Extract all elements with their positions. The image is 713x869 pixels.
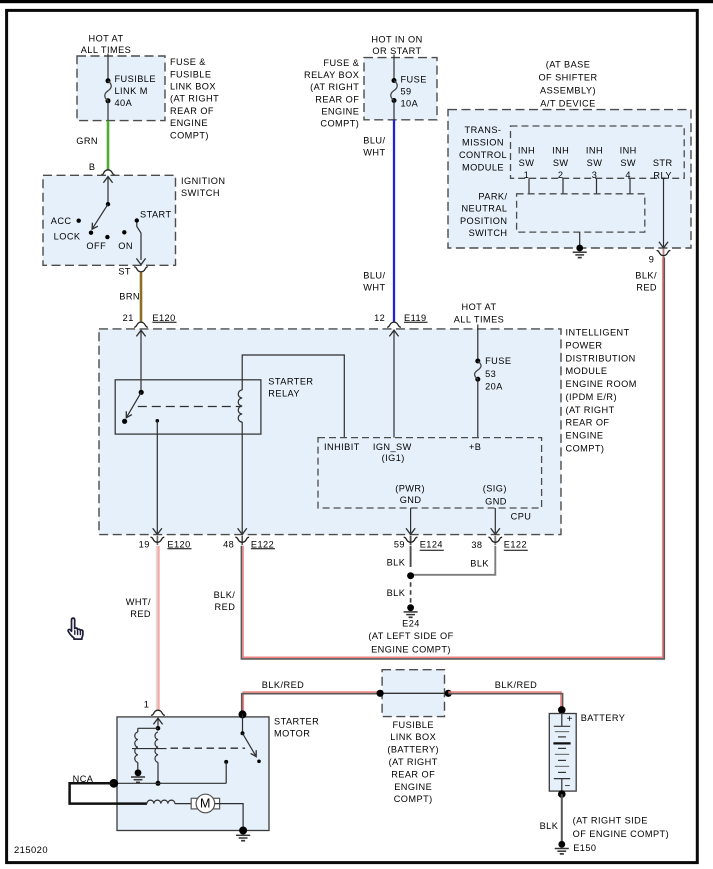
svg-text:NEUTRAL: NEUTRAL bbox=[461, 204, 507, 214]
wire pin 12 to IGN_SW bbox=[389, 330, 398, 437]
svg-text:SW: SW bbox=[620, 158, 636, 168]
junction battery negative bbox=[558, 790, 566, 798]
label BLU/WHT (upper) bbox=[363, 136, 385, 158]
svg-text:REAR OF: REAR OF bbox=[170, 106, 214, 116]
relay mechanical link (dashed) bbox=[138, 406, 242, 408]
svg-text:MODULE: MODULE bbox=[566, 366, 608, 376]
svg-text:(AT RIGHT: (AT RIGHT bbox=[310, 82, 359, 92]
label STARTER RELAY bbox=[268, 376, 313, 398]
svg-text:REAR OF: REAR OF bbox=[391, 769, 435, 779]
label BATTERY bbox=[581, 713, 626, 723]
svg-text:BLU/: BLU/ bbox=[363, 271, 385, 281]
wire PNP switch to ground bbox=[579, 232, 581, 248]
node ON bbox=[118, 230, 133, 251]
label PARK/ NEUTRAL POSITION SWITCH bbox=[460, 192, 508, 239]
svg-text:10A: 10A bbox=[401, 99, 419, 109]
wire pin 21 to relay contact bbox=[136, 330, 145, 392]
node HOT IN ON OR START bbox=[371, 35, 422, 56]
transmission control module box (dashed) bbox=[511, 126, 685, 178]
svg-text:−: − bbox=[564, 781, 570, 792]
label STARTER MOTOR bbox=[274, 717, 319, 739]
wire hold-in coil to ground bbox=[137, 762, 139, 769]
svg-text:INH: INH bbox=[586, 145, 603, 155]
label CPU bbox=[511, 512, 532, 522]
svg-text:BLK: BLK bbox=[387, 557, 406, 567]
svg-text:POSITION: POSITION bbox=[460, 216, 508, 226]
svg-text:(AT BASE: (AT BASE bbox=[546, 60, 591, 70]
wire BLU/WHT bbox=[393, 120, 395, 322]
svg-text:GND: GND bbox=[485, 496, 507, 506]
connector arc pin 1 bbox=[151, 710, 165, 715]
pin IGN_SW (IG1) bbox=[373, 442, 412, 463]
wire GRN bbox=[107, 121, 110, 171]
label BLK (pin 59) bbox=[387, 557, 406, 567]
starter switch contact bbox=[241, 714, 261, 763]
svg-text:STARTER: STARTER bbox=[268, 376, 313, 386]
wire STR RLY to pin 9 bbox=[659, 178, 668, 248]
pin 9 bbox=[649, 255, 655, 265]
node NCA bbox=[73, 774, 94, 784]
svg-text:INTELLIGENT: INTELLIGENT bbox=[566, 328, 630, 338]
connector arc pin 59 bbox=[404, 536, 418, 545]
svg-text:FUSE: FUSE bbox=[485, 356, 511, 366]
wire BLK/RED starter motor to fusible link box bbox=[242, 692, 380, 711]
wire fuse 53 to +B bbox=[477, 379, 479, 437]
svg-text:48: 48 bbox=[223, 539, 234, 549]
label GRN bbox=[76, 136, 98, 146]
svg-text:FUSIBLE: FUSIBLE bbox=[170, 69, 211, 79]
svg-text:53: 53 bbox=[485, 369, 496, 379]
connector at B (ignition switch) bbox=[101, 170, 115, 175]
wire BLK from pin 38 bbox=[413, 546, 495, 575]
connector arc pin 9 bbox=[657, 249, 671, 258]
wire WHT/RED bbox=[156, 546, 158, 711]
fusible link box (battery) dashed bbox=[382, 670, 444, 717]
svg-text:DISTRIBUTION: DISTRIBUTION bbox=[566, 353, 636, 363]
svg-text:GND: GND bbox=[400, 495, 422, 505]
connector arc pin 38 bbox=[488, 536, 502, 545]
svg-text:PARK/: PARK/ bbox=[478, 192, 507, 202]
svg-text:ENGINE: ENGINE bbox=[321, 106, 359, 116]
node ACC bbox=[51, 216, 81, 226]
svg-text:GRN: GRN bbox=[76, 136, 98, 146]
wire BLK from pin 59 bbox=[410, 546, 412, 567]
svg-text:FUSE &: FUSE & bbox=[323, 58, 359, 68]
label BLK/RED (pin 9) bbox=[635, 271, 657, 293]
svg-text:(BATTERY): (BATTERY) bbox=[387, 745, 439, 755]
wire START contact to ST terminal bbox=[136, 223, 145, 265]
svg-text:E120: E120 bbox=[167, 539, 190, 549]
svg-text:RED: RED bbox=[130, 609, 151, 619]
pin (PWR) GND bbox=[395, 483, 425, 505]
pin INHIBIT bbox=[324, 442, 360, 452]
label FUSIBLE LINK BOX (BATTERY) (AT RIGHT REAR OF ENGINE COMPT) bbox=[387, 720, 439, 804]
svg-text:59: 59 bbox=[394, 540, 405, 550]
svg-text:E122: E122 bbox=[251, 539, 274, 549]
label BLK/RED (right) bbox=[495, 680, 537, 690]
svg-text:(AT LEFT SIDE OF: (AT LEFT SIDE OF bbox=[368, 631, 453, 641]
svg-text:E122: E122 bbox=[504, 540, 527, 550]
pin +B bbox=[469, 442, 481, 452]
label BLK (battery) bbox=[540, 821, 559, 831]
wire from HOT AT ALL TIMES into fusible link box bbox=[107, 54, 109, 82]
svg-text:B: B bbox=[89, 162, 96, 172]
wire INH SW 3 to PNP switch bbox=[596, 178, 598, 194]
label BLK (to E24) bbox=[387, 588, 406, 598]
connector E122 (pin 38) bbox=[504, 540, 528, 551]
pin 21 bbox=[123, 313, 134, 323]
node ST bbox=[118, 267, 131, 277]
svg-text:(AT RIGHT SIDE: (AT RIGHT SIDE bbox=[573, 816, 648, 826]
A/T device box (dashed) bbox=[448, 110, 691, 248]
svg-text:(AT RIGHT: (AT RIGHT bbox=[566, 405, 615, 415]
svg-text:E150: E150 bbox=[573, 843, 596, 853]
starter switch fixed contact to NCA wire bbox=[224, 760, 228, 783]
svg-text:(PWR): (PWR) bbox=[395, 483, 425, 493]
node START bbox=[135, 209, 172, 222]
svg-text:M: M bbox=[200, 797, 211, 811]
wire BRN bbox=[140, 272, 143, 321]
pin INH SW 2 bbox=[552, 145, 569, 180]
svg-text:12: 12 bbox=[374, 313, 385, 323]
wire INH SW 1 to PNP switch bbox=[528, 178, 530, 194]
svg-text:SWITCH: SWITCH bbox=[181, 188, 220, 198]
svg-text:BLK/: BLK/ bbox=[214, 590, 236, 600]
svg-text:E120: E120 bbox=[152, 313, 175, 323]
fuse & relay box (dashed) bbox=[364, 58, 437, 120]
ignition switch box (dashed) bbox=[43, 175, 176, 265]
svg-text:ACC: ACC bbox=[51, 216, 72, 226]
node OFF bbox=[86, 235, 109, 251]
svg-text:ST: ST bbox=[118, 267, 131, 277]
svg-text:IGN_SW: IGN_SW bbox=[373, 442, 412, 452]
connector arc pin 48 bbox=[235, 536, 249, 545]
wire BLK/RED fusible link box to battery bbox=[448, 692, 562, 708]
svg-text:MISSION: MISSION bbox=[462, 138, 504, 148]
svg-text:HOT IN ON: HOT IN ON bbox=[371, 35, 422, 45]
label WHT/RED bbox=[126, 597, 151, 619]
svg-text:59: 59 bbox=[401, 87, 412, 97]
svg-text:BLK: BLK bbox=[470, 559, 489, 569]
label (AT LEFT SIDE OF ENGINE COMPT) bbox=[368, 631, 453, 654]
svg-text:LINK BOX: LINK BOX bbox=[170, 82, 216, 92]
starter field coil bbox=[147, 800, 175, 803]
svg-text:WHT: WHT bbox=[363, 283, 385, 293]
label FUSE 59 10A bbox=[401, 75, 427, 109]
svg-text:1: 1 bbox=[144, 700, 150, 710]
node B bbox=[89, 162, 96, 172]
connector E122 (pin 48) bbox=[251, 539, 275, 549]
junction fusible link box left bbox=[377, 690, 384, 697]
ignition switch rotor arm bbox=[92, 202, 110, 229]
svg-text:21: 21 bbox=[123, 313, 134, 323]
svg-text:BLU/: BLU/ bbox=[363, 136, 385, 146]
motor M armature bbox=[191, 794, 219, 813]
label FUSIBLE LINK M 40A bbox=[115, 74, 156, 108]
svg-text:POWER: POWER bbox=[566, 340, 603, 350]
svg-text:COMPT): COMPT) bbox=[170, 130, 209, 140]
pin (SIG) GND bbox=[483, 483, 507, 506]
pin STR RLY bbox=[653, 158, 673, 180]
wire pin 1 into starter motor bbox=[153, 718, 162, 728]
svg-text:(SIG): (SIG) bbox=[483, 483, 507, 493]
pin 19 bbox=[139, 539, 150, 549]
fuse 59 10A bbox=[391, 78, 397, 120]
wire BLK to ground E24 (dashed) bbox=[410, 582, 412, 603]
label BLK/RED (pin 48) bbox=[214, 590, 236, 612]
svg-text:SW: SW bbox=[553, 158, 569, 168]
connector E120 (pin 21) bbox=[152, 313, 176, 323]
svg-text:COMPT): COMPT) bbox=[394, 794, 433, 804]
svg-text:ENGINE: ENGINE bbox=[394, 782, 432, 792]
relay coil bbox=[238, 390, 242, 422]
solenoid hold-in coil bbox=[135, 732, 138, 762]
connector E124 (pin 59) bbox=[420, 540, 444, 551]
wire field coil to motor bbox=[175, 803, 192, 805]
label BLU/WHT (lower) bbox=[363, 271, 385, 293]
svg-text:FUSIBLE: FUSIBLE bbox=[392, 720, 433, 730]
node HOT AT ALL TIMES (IPDM) bbox=[454, 302, 505, 325]
svg-text:RELAY: RELAY bbox=[268, 388, 300, 398]
label E24 bbox=[402, 619, 420, 629]
hand cursor bbox=[68, 618, 83, 639]
label TRANS- MISSION CONTROL MODULE bbox=[459, 125, 507, 172]
fuse 53 20A bbox=[475, 359, 481, 382]
svg-text:BLK: BLK bbox=[540, 821, 559, 831]
wire BLK/RED from pin 48 to STR RLY pin 9 bbox=[241, 258, 664, 659]
connector at ST bbox=[134, 267, 148, 272]
svg-text:COMPT): COMPT) bbox=[320, 119, 359, 129]
svg-text:LINK M: LINK M bbox=[115, 86, 148, 96]
svg-text:ALL TIMES: ALL TIMES bbox=[454, 314, 505, 324]
svg-text:TRANS-: TRANS- bbox=[465, 125, 502, 135]
svg-text:FUSIBLE: FUSIBLE bbox=[115, 74, 156, 84]
svg-text:MODULE: MODULE bbox=[462, 162, 504, 172]
junction solenoid coils bbox=[138, 726, 161, 732]
svg-text:ENGINE COMPT): ENGINE COMPT) bbox=[371, 645, 451, 655]
label FUSE & FUSIBLE LINK BOX (AT RIGHT REAR OF ENGINE COMPT) bbox=[170, 57, 219, 140]
svg-text:BLK/RED: BLK/RED bbox=[262, 680, 304, 690]
svg-text:LOCK: LOCK bbox=[54, 231, 81, 241]
svg-text:40A: 40A bbox=[115, 98, 133, 108]
junction motor ground bbox=[239, 827, 247, 835]
svg-text:FUSE &: FUSE & bbox=[170, 57, 206, 67]
svg-text:A/T DEVICE: A/T DEVICE bbox=[540, 98, 595, 108]
svg-text:COMPT): COMPT) bbox=[566, 444, 605, 454]
connector arc pin 12 bbox=[387, 322, 401, 327]
ground at A/T device bbox=[573, 245, 587, 258]
wire through fusible link box bbox=[380, 692, 448, 694]
svg-text:BLK/: BLK/ bbox=[635, 271, 657, 281]
svg-text:RLY: RLY bbox=[653, 170, 672, 180]
pin 38 bbox=[471, 540, 482, 550]
starter relay box bbox=[115, 380, 261, 434]
wire INH SW 4 to PNP switch bbox=[629, 178, 631, 194]
svg-text:IGNITION: IGNITION bbox=[181, 176, 225, 186]
svg-text:38: 38 bbox=[471, 540, 482, 550]
fusible link M 40A bbox=[105, 78, 111, 120]
wire (SIG) GND to pin 38 bbox=[491, 508, 500, 534]
label INTELLIGENT POWER DISTRIBUTION MODULE ENGINE ROOM (IPDM E/R) (AT RIGHT REAR OF ENGINE COMPT) bbox=[566, 328, 637, 454]
wire relay coil to INHIBIT bbox=[242, 355, 344, 438]
solenoid plunger link bbox=[132, 748, 167, 750]
junction battery positive bbox=[558, 706, 566, 714]
svg-text:INH: INH bbox=[518, 145, 535, 155]
svg-text:(AT RIGHT: (AT RIGHT bbox=[389, 757, 438, 767]
svg-text:HOT AT: HOT AT bbox=[88, 33, 123, 43]
junction NCA at starter box bbox=[109, 779, 118, 788]
svg-text:BRN: BRN bbox=[119, 292, 140, 302]
wire B terminal into switch (arrow) bbox=[103, 177, 112, 205]
svg-text:(IPDM E/R): (IPDM E/R) bbox=[566, 392, 617, 402]
svg-text:E24: E24 bbox=[402, 619, 420, 629]
wire BLK battery to ground bbox=[561, 794, 563, 841]
label 215020 bbox=[14, 844, 48, 855]
relay contact (movable arm) bbox=[122, 390, 144, 424]
ground starter motor bbox=[236, 835, 250, 840]
svg-text:OF SHIFTER: OF SHIFTER bbox=[538, 73, 597, 83]
ground E24 bbox=[404, 604, 418, 617]
wire pull-in coil to NCA node bbox=[156, 762, 161, 785]
svg-text:SWITCH: SWITCH bbox=[469, 228, 508, 238]
starter switch link (dashed) bbox=[171, 747, 246, 749]
svg-text:STR: STR bbox=[653, 158, 673, 168]
svg-text:9: 9 bbox=[649, 255, 655, 265]
junction BLK wires bbox=[407, 572, 414, 579]
fuse & fusible link box (dashed) bbox=[77, 56, 165, 121]
ground solenoid (internal) bbox=[131, 769, 145, 782]
label (AT BASE OF SHIFTER ASSEMBLY) A/T DEVICE bbox=[538, 60, 597, 109]
svg-text:BLK/RED: BLK/RED bbox=[495, 680, 537, 690]
svg-text:OFF: OFF bbox=[86, 241, 106, 251]
label FUSE 53 20A bbox=[485, 356, 511, 391]
svg-text:RED: RED bbox=[215, 602, 236, 612]
solenoid pull-in coil bbox=[155, 732, 158, 762]
svg-text:(IG1): (IG1) bbox=[382, 453, 405, 463]
connector arc pin 21 bbox=[134, 322, 148, 327]
connector arc pin 19 bbox=[151, 536, 165, 545]
svg-text:SW: SW bbox=[587, 158, 603, 168]
svg-text:E124: E124 bbox=[420, 540, 443, 550]
svg-text:RED: RED bbox=[636, 282, 657, 292]
svg-text:WHT: WHT bbox=[363, 147, 385, 157]
starter motor box bbox=[117, 717, 269, 831]
node LOCK bbox=[54, 231, 94, 242]
svg-text:HOT AT: HOT AT bbox=[461, 302, 496, 312]
ground E150 bbox=[555, 841, 569, 854]
svg-text:RELAY BOX: RELAY BOX bbox=[304, 70, 359, 80]
svg-text:SW: SW bbox=[519, 158, 535, 168]
label FUSE & RELAY BOX (AT RIGHT REAR OF ENGINE COMPT) bbox=[304, 58, 359, 129]
svg-text:ALL TIMES: ALL TIMES bbox=[81, 45, 132, 55]
svg-text:CONTROL: CONTROL bbox=[459, 150, 507, 160]
label BLK/RED (left) bbox=[262, 680, 304, 690]
pin INH SW 1 bbox=[518, 145, 535, 180]
svg-text:BLK: BLK bbox=[387, 588, 406, 598]
svg-text:OF ENGINE COMPT): OF ENGINE COMPT) bbox=[573, 829, 670, 839]
pin INH SW 4 bbox=[620, 145, 637, 180]
wire into fuse 59 bbox=[393, 55, 395, 81]
svg-text:INHIBIT: INHIBIT bbox=[324, 442, 360, 452]
park/neutral position switch box (dashed) bbox=[517, 194, 645, 232]
svg-text:BATTERY: BATTERY bbox=[581, 713, 626, 723]
svg-text:START: START bbox=[140, 209, 172, 219]
IPDM E/R box (dashed) bbox=[99, 329, 561, 535]
wire motor to ground bbox=[215, 804, 243, 831]
svg-text:ASSEMBLY): ASSEMBLY) bbox=[540, 85, 596, 95]
svg-text:REAR OF: REAR OF bbox=[315, 94, 359, 104]
junction starter B terminal bbox=[239, 710, 247, 718]
svg-text:WHT/: WHT/ bbox=[126, 597, 151, 607]
wire relay coil to pin 48 bbox=[238, 422, 247, 534]
svg-text:+B: +B bbox=[469, 442, 481, 452]
relay output contact to pin 19 bbox=[153, 419, 162, 534]
connector E119 (pin 12) bbox=[404, 313, 428, 323]
svg-text:REAR OF: REAR OF bbox=[566, 418, 610, 428]
pin INH SW 3 bbox=[586, 145, 603, 180]
CPU box (dashed) bbox=[318, 438, 542, 508]
label BRN bbox=[119, 292, 140, 302]
svg-text:19: 19 bbox=[139, 539, 150, 549]
svg-text:LINK BOX: LINK BOX bbox=[390, 732, 436, 742]
svg-text:(AT RIGHT: (AT RIGHT bbox=[170, 94, 219, 104]
wire INH SW 2 to PNP switch bbox=[562, 178, 564, 194]
svg-text:CPU: CPU bbox=[511, 512, 532, 522]
junction fusible link box right bbox=[445, 690, 452, 697]
svg-text:+: + bbox=[567, 714, 573, 725]
svg-text:ENGINE ROOM: ENGINE ROOM bbox=[566, 379, 637, 389]
svg-text:FUSE: FUSE bbox=[401, 75, 427, 85]
wire (PWR) GND to pin 59 bbox=[406, 508, 415, 534]
wire NCA loop (thick) bbox=[70, 783, 147, 803]
battery bbox=[549, 714, 576, 793]
node HOT AT ALL TIMES (fusible link feed) bbox=[81, 33, 132, 55]
svg-text:STARTER: STARTER bbox=[274, 717, 319, 727]
connector E120 (pin 19) bbox=[167, 539, 191, 549]
svg-text:ON: ON bbox=[118, 241, 133, 251]
label E150 bbox=[573, 843, 596, 853]
svg-text:ENGINE: ENGINE bbox=[170, 118, 208, 128]
svg-text:OR START: OR START bbox=[372, 46, 421, 56]
pin 12 bbox=[374, 313, 385, 323]
svg-text:MOTOR: MOTOR bbox=[274, 728, 310, 738]
label IGNITION SWITCH bbox=[181, 176, 225, 198]
pin 48 bbox=[223, 539, 234, 549]
wire NCA node bbox=[114, 782, 226, 784]
label (AT RIGHT SIDE OF ENGINE COMPT) bbox=[573, 816, 670, 840]
svg-text:20A: 20A bbox=[485, 381, 503, 391]
svg-text:215020: 215020 bbox=[14, 844, 48, 855]
svg-text:ENGINE: ENGINE bbox=[566, 431, 604, 441]
svg-text:INH: INH bbox=[620, 145, 637, 155]
svg-text:INH: INH bbox=[552, 145, 569, 155]
wire into fuse 53 bbox=[477, 325, 479, 362]
label BLK (pin 38) bbox=[470, 559, 489, 569]
svg-text:E119: E119 bbox=[404, 313, 427, 323]
pin 1 (starter motor) bbox=[144, 700, 150, 710]
pin 59 bbox=[394, 540, 405, 550]
